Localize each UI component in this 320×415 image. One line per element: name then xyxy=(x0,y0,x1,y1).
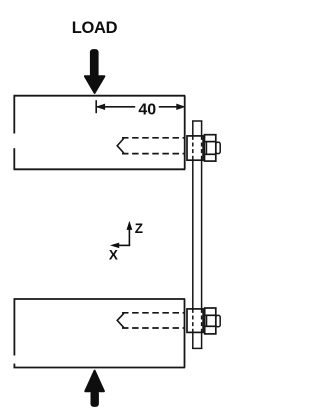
load arrow (down) xyxy=(85,50,105,93)
dimension 40 xyxy=(96,100,184,113)
lower hidden bolt shank (dashed) xyxy=(117,313,184,328)
lower washer xyxy=(187,309,203,333)
upper washer xyxy=(187,136,203,160)
vertical strap xyxy=(192,121,202,349)
svg-text:40: 40 xyxy=(138,101,156,118)
axes xyxy=(112,222,132,247)
svg-text:Z: Z xyxy=(135,221,143,236)
svg-text:LOAD: LOAD xyxy=(72,19,118,37)
upper hidden bolt shank (dashed) xyxy=(117,138,185,154)
upper plate xyxy=(14,96,186,170)
lower nut xyxy=(205,308,221,334)
bottom arrow (up) xyxy=(85,371,104,407)
upper nut xyxy=(205,135,221,161)
svg-text:X: X xyxy=(109,248,118,263)
lower plate xyxy=(14,299,186,368)
